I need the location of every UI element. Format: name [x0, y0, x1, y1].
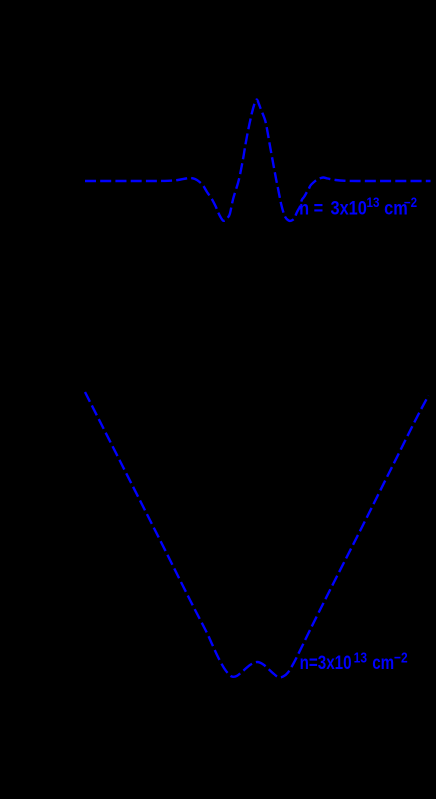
svg-text:cm: cm: [372, 652, 394, 674]
svg-text:13: 13: [354, 649, 368, 666]
bottom panel label: n=3x10^13 cm^-2: [300, 649, 408, 674]
svg-text:−2: −2: [404, 195, 417, 210]
svg-text:n=3x10: n=3x10: [300, 652, 352, 674]
svg-text:3x10: 3x10: [331, 197, 367, 218]
svg-text:13: 13: [367, 195, 380, 210]
top panel label: n = 3x10^13 cm^-2: [299, 195, 417, 218]
svg-text:n =: n =: [299, 197, 323, 218]
svg-text:−2: −2: [394, 649, 408, 666]
top panel wavelet curve: [85, 100, 431, 221]
bottom panel V curve: [85, 392, 429, 677]
